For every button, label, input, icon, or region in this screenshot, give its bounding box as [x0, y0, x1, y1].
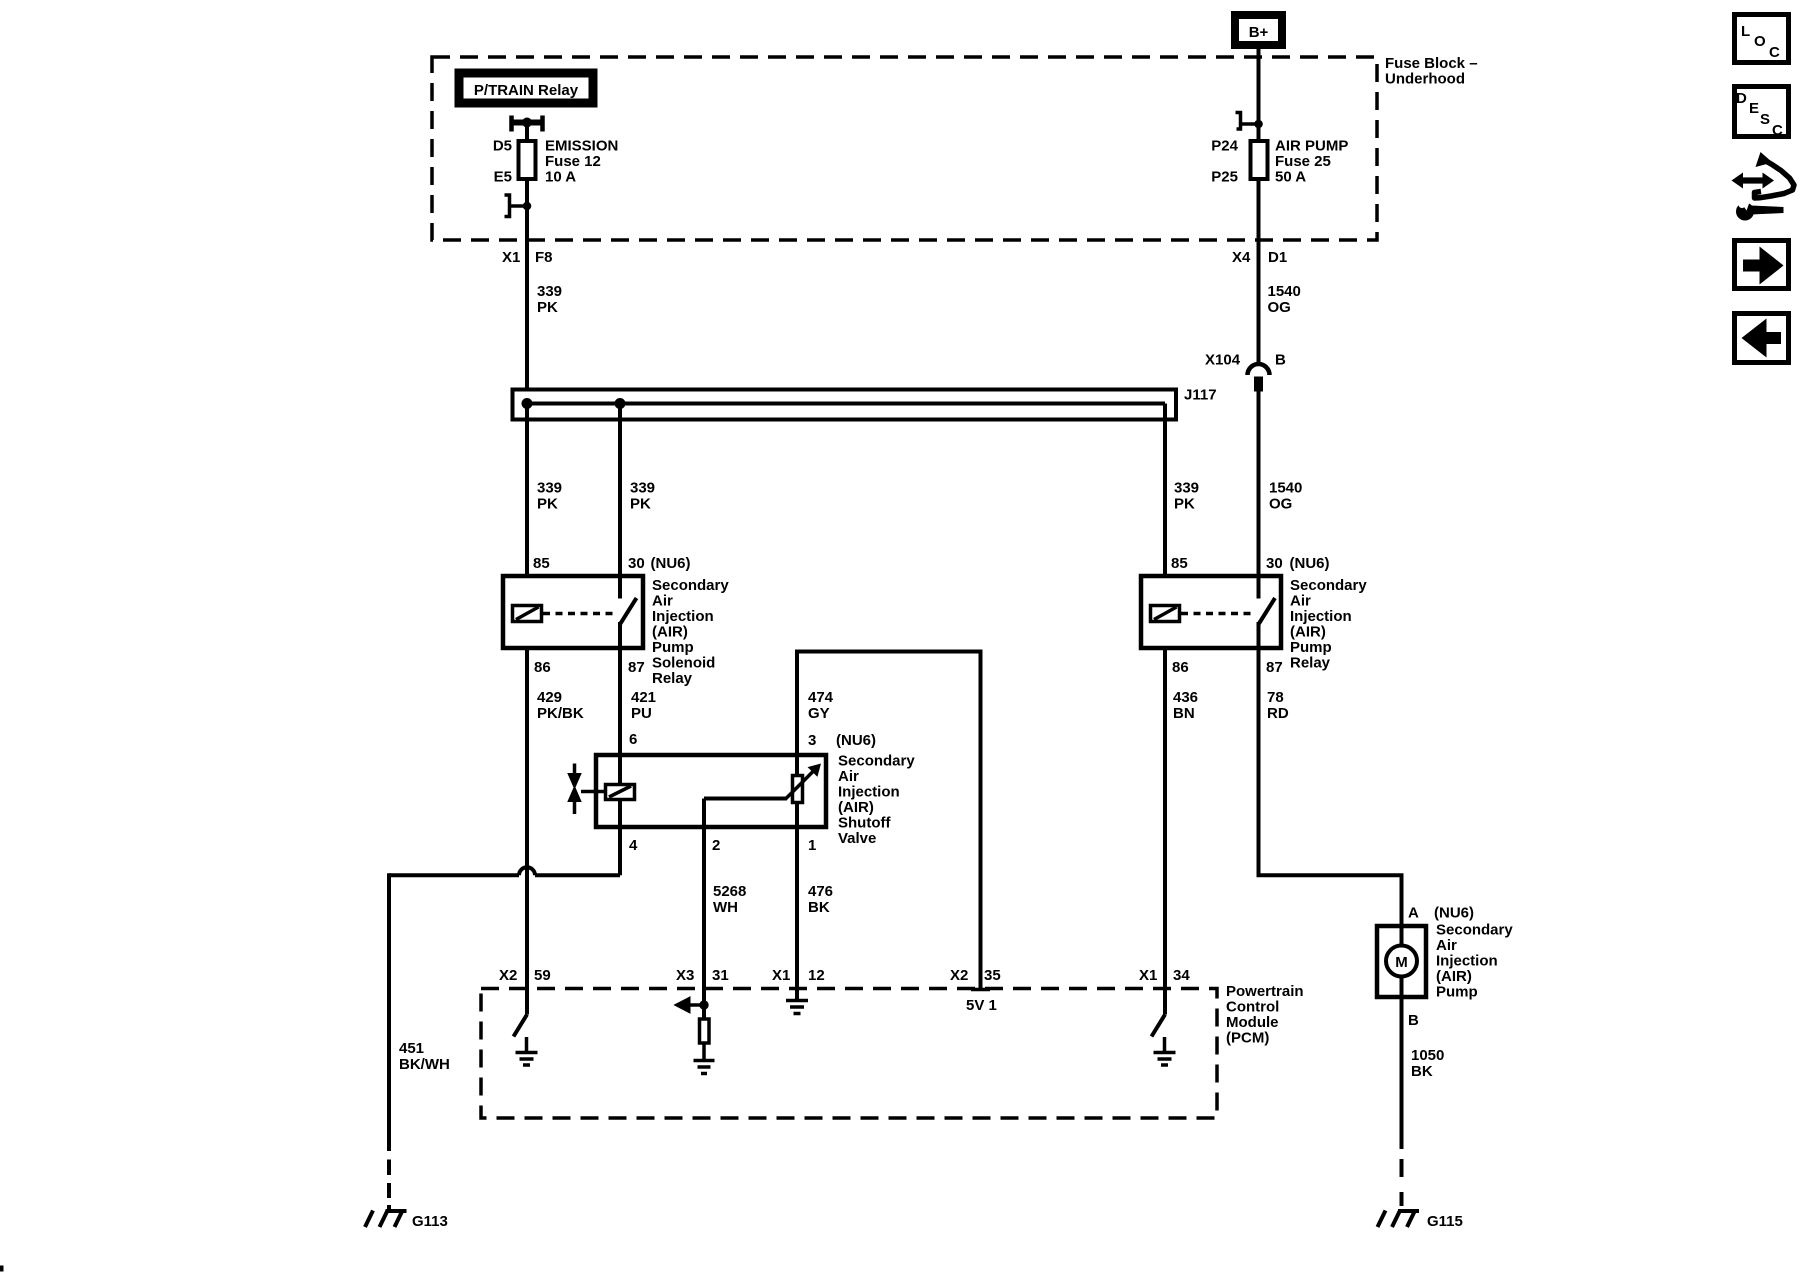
svg-text:A: A: [1408, 905, 1419, 922]
wire 78 RD relay87 to pump motor: [1259, 646, 1402, 928]
PCM X1-12 internal ground: [786, 1001, 808, 1014]
svg-text:Relay: Relay: [652, 670, 693, 687]
wire label 1540 OG drop: [1269, 480, 1302, 513]
svg-text:Underhood: Underhood: [1385, 71, 1465, 88]
wire B+ to fuse 25: [1257, 45, 1261, 141]
svg-text:59: 59: [534, 967, 551, 984]
relay K1 switch arm: [621, 598, 637, 624]
svg-text:Fuse Block –: Fuse Block –: [1385, 55, 1478, 72]
wire 5268 WH valve pin2 to PCM X3-31: [702, 799, 706, 1018]
svg-text:Valve: Valve: [838, 830, 876, 847]
svg-text:D5: D5: [493, 138, 512, 155]
svg-text:Secondary: Secondary: [1290, 577, 1367, 594]
svg-text:X4: X4: [1232, 249, 1251, 266]
svg-text:86: 86: [1172, 659, 1189, 676]
relay K2 switch output stub: [1257, 622, 1261, 648]
fuse block underhood dashed box: [432, 57, 1377, 240]
svg-text:X1: X1: [502, 249, 520, 266]
svg-text:Pump: Pump: [1290, 639, 1332, 656]
svg-text:D1: D1: [1268, 249, 1287, 266]
svg-text:Air: Air: [1436, 937, 1457, 954]
wire label 1540 OG upper: [1268, 283, 1301, 316]
PCM dashed box: [481, 989, 1217, 1119]
PCM name text: [1226, 983, 1304, 1047]
svg-text:X3: X3: [676, 967, 694, 984]
relay K1 pin labels 85 30: [533, 555, 691, 572]
PCM X3-31 pull-up resistor: [700, 1019, 710, 1060]
relay K2 switch input stub: [1257, 576, 1261, 599]
svg-text:D: D: [1736, 90, 1747, 107]
svg-text:M: M: [1395, 954, 1408, 971]
svg-text:339: 339: [1174, 480, 1199, 497]
svg-text:B: B: [1275, 352, 1286, 369]
valve solenoid coil: [606, 755, 635, 829]
svg-text:5268: 5268: [713, 883, 746, 900]
svg-text:OG: OG: [1268, 299, 1291, 316]
relay K2 pin labels 85 30: [1171, 555, 1330, 572]
svg-text:Secondary: Secondary: [838, 753, 915, 770]
wire label 339 PK left drop: [537, 480, 562, 513]
junction dot bus left: [522, 399, 532, 409]
svg-text:G115: G115: [1427, 1213, 1463, 1230]
AIR pump motor box: [1377, 926, 1426, 997]
wire bracket to fuse 12: [525, 123, 529, 142]
svg-text:BK/WH: BK/WH: [399, 1056, 450, 1073]
wire 1050 BK pump to G115: [1400, 995, 1404, 1211]
PCM X3-31 internal ground: [694, 1061, 715, 1074]
svg-text:Relay: Relay: [1290, 655, 1331, 672]
PCM X2-35 5V reference terminal: [966, 990, 997, 1015]
wire label 78 RD: [1267, 689, 1289, 722]
fuse 25 terminal labels P24 P25: [1211, 138, 1238, 186]
svg-text:B+: B+: [1249, 24, 1269, 41]
svg-text:(AIR): (AIR): [1436, 968, 1472, 985]
svg-text:339: 339: [630, 480, 655, 497]
fuse F12 EMISSION: [519, 141, 536, 181]
PCM X1-34 driver switch: [1152, 1015, 1166, 1037]
svg-text:S: S: [1760, 111, 1770, 128]
fuse block label: [1385, 55, 1478, 88]
PCM X1-34 internal ground: [1154, 1037, 1176, 1065]
svg-text:F8: F8: [535, 249, 553, 266]
svg-text:AIR PUMP: AIR PUMP: [1275, 138, 1348, 155]
svg-text:Air: Air: [838, 768, 859, 785]
PCM X3-31 signal arrow: [675, 997, 709, 1013]
fuse 12 terminal labels D5 E5: [493, 138, 512, 186]
svg-text:WH: WH: [713, 899, 738, 916]
svg-text:Shutoff: Shutoff: [838, 815, 891, 832]
valve pin labels 4 2 1: [629, 837, 816, 854]
svg-text:Fuse 12: Fuse 12: [545, 153, 601, 170]
in-line connector X104: [1248, 364, 1270, 391]
svg-text:1050: 1050: [1411, 1047, 1444, 1064]
svg-text:339: 339: [537, 480, 562, 497]
AIR pump motor M: [1386, 926, 1417, 997]
svg-text:X2: X2: [950, 967, 968, 984]
valve name text: [836, 732, 915, 847]
svg-text:87: 87: [1266, 659, 1283, 676]
wire label 1050 BK: [1411, 1047, 1444, 1080]
svg-text:(NU6): (NU6): [651, 555, 691, 572]
svg-text:PK: PK: [537, 496, 558, 513]
svg-text:RD: RD: [1267, 705, 1289, 722]
fuse 12 value label: [545, 138, 618, 186]
svg-text:BN: BN: [1173, 705, 1195, 722]
svg-text:PK: PK: [630, 496, 651, 513]
svg-text:6: 6: [629, 731, 637, 748]
wire label 429 PK/BK: [537, 689, 584, 722]
svg-text:Control: Control: [1226, 999, 1279, 1016]
fuse 25 value label: [1275, 138, 1348, 186]
wire 339 PK bus to left relay 30: [618, 404, 622, 579]
svg-text:C: C: [1772, 122, 1783, 139]
relay K2 AIR pump relay box: [1141, 576, 1281, 648]
svg-text:B: B: [1408, 1012, 1419, 1029]
svg-text:Powertrain: Powertrain: [1226, 983, 1304, 1000]
P/TRAIN Relay feed label box: [455, 69, 597, 107]
wire label 436 BN: [1173, 689, 1198, 722]
pump name text: [1434, 905, 1513, 1001]
relay K1 AIR pump solenoid relay box: [503, 576, 643, 648]
svg-text:10 A: 10 A: [545, 169, 576, 186]
svg-text:339: 339: [537, 283, 562, 300]
wire 474 GY valve pin3 to PCM X2-35: [797, 652, 981, 990]
icon DESC box: [1735, 87, 1789, 140]
svg-text:Secondary: Secondary: [652, 577, 729, 594]
svg-text:78: 78: [1267, 689, 1284, 706]
wire label 476 BK: [808, 883, 833, 916]
wire 339 PK fuse to J117: [525, 179, 529, 391]
AIR shutoff valve box: [596, 755, 826, 827]
fuse F25 AIR PUMP: [1251, 141, 1268, 181]
svg-text:PK: PK: [537, 299, 558, 316]
icon LOC box: [1735, 15, 1789, 63]
wire 451 BK/WH valve pin4 to G113 with hop: [389, 825, 620, 1211]
relay K2 switch arm: [1259, 598, 1275, 624]
relay K2 coil: [1151, 606, 1180, 622]
icon back arrow box: [1735, 314, 1789, 363]
wire 436 BN relay86 to PCM: [1163, 646, 1167, 1015]
relay K1 switch input stub: [618, 576, 622, 599]
svg-text:1540: 1540: [1269, 480, 1302, 497]
wire 421 PU relay87 to valve pin6: [618, 646, 622, 785]
relay K2 coil-switch dashed link: [1181, 612, 1255, 616]
svg-text:50 A: 50 A: [1275, 169, 1306, 186]
svg-text:(AIR): (AIR): [1290, 624, 1326, 641]
svg-text:429: 429: [537, 689, 562, 706]
svg-text:C: C: [1769, 44, 1780, 61]
svg-text:P25: P25: [1211, 169, 1238, 186]
relay K1 name text: [652, 577, 729, 687]
junction dot bus mid: [615, 399, 625, 409]
svg-text:EMISSION: EMISSION: [545, 138, 618, 155]
svg-text:(AIR): (AIR): [838, 799, 874, 816]
icon harness check (arrows + wrench): [1732, 152, 1795, 221]
svg-text:34: 34: [1173, 967, 1190, 984]
svg-text:GY: GY: [808, 705, 830, 722]
svg-text:X1: X1: [772, 967, 790, 984]
svg-text:P24: P24: [1211, 138, 1238, 155]
wire label 451 BK/WH: [399, 1040, 450, 1073]
svg-text:O: O: [1754, 33, 1766, 50]
svg-text:(NU6): (NU6): [1290, 555, 1330, 572]
svg-text:30: 30: [1266, 555, 1283, 572]
page speck: [0, 1266, 3, 1271]
svg-text:Air: Air: [652, 593, 673, 610]
svg-text:Fuse 25: Fuse 25: [1275, 153, 1331, 170]
wire label 421 PU: [631, 689, 656, 722]
wire label 474 GY: [808, 689, 834, 722]
valve position feedback wiper: [704, 764, 821, 800]
relay K1 coil: [513, 606, 542, 622]
relay K1 pin labels 86 87: [534, 659, 645, 676]
svg-text:85: 85: [1171, 555, 1188, 572]
svg-text:PK: PK: [1174, 496, 1195, 513]
svg-text:(AIR): (AIR): [652, 624, 688, 641]
svg-text:G113: G113: [412, 1213, 448, 1230]
svg-text:1540: 1540: [1268, 283, 1301, 300]
relay K1 coil-switch dashed link: [543, 612, 617, 616]
svg-text:BK: BK: [1411, 1063, 1433, 1080]
svg-text:421: 421: [631, 689, 656, 706]
svg-text:(NU6): (NU6): [836, 732, 876, 749]
svg-text:(PCM): (PCM): [1226, 1030, 1269, 1047]
PCM X2-59 driver switch: [514, 1015, 528, 1037]
wire label 339 PK right drop: [1174, 480, 1199, 513]
svg-text:Injection: Injection: [838, 784, 900, 801]
relay output bus bracket symbol: [512, 116, 543, 132]
wire label 339 PK upper: [537, 283, 562, 316]
connector X104 labels: [1205, 352, 1286, 369]
svg-text:436: 436: [1173, 689, 1198, 706]
svg-text:86: 86: [534, 659, 551, 676]
ground G115 symbol: [1378, 1211, 1420, 1228]
svg-text:85: 85: [533, 555, 550, 572]
svg-text:L: L: [1741, 23, 1750, 40]
wire 339 PK bus to right relay 85: [1163, 404, 1167, 579]
svg-text:Solenoid: Solenoid: [652, 655, 715, 672]
PCM X2-59 internal ground: [516, 1037, 538, 1065]
svg-text:35: 35: [984, 967, 1001, 984]
svg-text:OG: OG: [1269, 496, 1292, 513]
wire label 5268 WH: [713, 883, 746, 916]
svg-text:3: 3: [808, 732, 816, 749]
svg-text:PK/BK: PK/BK: [537, 705, 584, 722]
svg-text:451: 451: [399, 1040, 424, 1057]
svg-text:X1: X1: [1139, 967, 1157, 984]
svg-text:1: 1: [808, 837, 816, 854]
svg-text:P/TRAIN Relay: P/TRAIN Relay: [474, 82, 579, 99]
svg-text:Injection: Injection: [652, 608, 714, 625]
wire 1540 OG fuse 25 to X104: [1257, 179, 1261, 364]
svg-text:E5: E5: [494, 169, 512, 186]
svg-text:(NU6): (NU6): [1434, 905, 1474, 922]
wire 339 PK bus to left relay 85: [525, 404, 529, 579]
svg-text:X104: X104: [1205, 352, 1241, 369]
splice pack J117 bus bar: [527, 402, 1165, 406]
svg-text:2: 2: [712, 837, 720, 854]
wire 476 BK valve pin1 to PCM X1-12: [795, 825, 799, 999]
svg-text:31: 31: [712, 967, 729, 984]
wire label 339 PK mid drop: [630, 480, 655, 513]
svg-text:E: E: [1749, 100, 1759, 117]
wire 1540 OG X104 to relay 30: [1257, 391, 1261, 578]
svg-text:30: 30: [628, 555, 645, 572]
svg-text:476: 476: [808, 883, 833, 900]
svg-text:Pump: Pump: [1436, 984, 1478, 1001]
wire 429 PK/BK relay86 to PCM: [525, 646, 529, 1015]
connector labels X4 D1: [1232, 249, 1287, 266]
relay K2 name text: [1290, 577, 1367, 672]
ground G113 symbol: [365, 1211, 407, 1228]
svg-text:474: 474: [808, 689, 834, 706]
svg-text:4: 4: [629, 837, 638, 854]
valve symbol (pneumatic bowtie): [568, 764, 606, 815]
svg-text:Injection: Injection: [1436, 953, 1498, 970]
svg-text:J117: J117: [1184, 387, 1217, 404]
svg-text:X2: X2: [499, 967, 517, 984]
svg-text:Secondary: Secondary: [1436, 922, 1513, 939]
valve feedback resistor element: [793, 755, 803, 829]
fuse 25 input clip symbol: [1236, 113, 1263, 130]
fuse 12 output clip symbol: [505, 195, 531, 217]
svg-text:PU: PU: [631, 705, 652, 722]
PCM connector labels: [499, 967, 1190, 984]
connector labels X1 F8: [502, 249, 553, 266]
svg-text:5V 1: 5V 1: [966, 997, 997, 1014]
svg-text:Pump: Pump: [652, 639, 694, 656]
relay K2 pin labels 86 87: [1172, 659, 1283, 676]
svg-text:Air: Air: [1290, 593, 1311, 610]
svg-text:87: 87: [628, 659, 645, 676]
splice pack J117 housing: [513, 390, 1177, 420]
svg-text:BK: BK: [808, 899, 830, 916]
relay K1 switch output stub: [618, 622, 622, 648]
icon forward arrow box: [1735, 241, 1789, 289]
battery feed B+ terminal: [1235, 15, 1282, 45]
svg-text:Module: Module: [1226, 1014, 1279, 1031]
svg-text:Injection: Injection: [1290, 608, 1352, 625]
svg-text:12: 12: [808, 967, 825, 984]
